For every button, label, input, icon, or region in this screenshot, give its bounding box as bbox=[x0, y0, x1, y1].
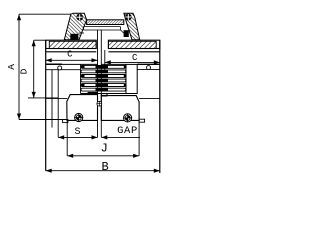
right block step bbox=[101, 94, 107, 96]
svg-text:S: S bbox=[74, 127, 80, 138]
cover right bolt bbox=[125, 14, 131, 20]
svg-text:C: C bbox=[67, 49, 73, 59]
right flange bolt bbox=[124, 114, 132, 122]
chamber bottom bbox=[81, 93, 138, 95]
left block bottom tab bbox=[63, 120, 68, 123]
cover right seal bbox=[124, 30, 129, 37]
extension line from cover top bbox=[19, 13, 71, 15]
right flange block bbox=[101, 96, 139, 121]
dimension line C left bbox=[46, 59, 98, 61]
gap left face line bbox=[97, 30, 99, 137]
left bore line bbox=[46, 69, 81, 71]
extension line A bottom bbox=[19, 119, 68, 121]
extension line D top bbox=[34, 39, 46, 41]
dimension line D bbox=[33, 40, 35, 98]
chamber left wall bbox=[80, 64, 82, 93]
svg-text:J: J bbox=[101, 142, 108, 156]
right lube hole bbox=[147, 66, 151, 70]
left hub face and B extension bbox=[45, 40, 47, 171]
gap small bolt bbox=[97, 101, 102, 106]
svg-text:B: B bbox=[101, 160, 108, 174]
chamber top line right bbox=[101, 63, 126, 65]
svg-text:GAP: GAP bbox=[117, 125, 138, 137]
left lube hole bbox=[58, 66, 62, 70]
cover left bolt bbox=[77, 14, 83, 20]
left keyway line 1 bbox=[51, 70, 53, 128]
left hub rim outline bbox=[46, 40, 96, 48]
gap right face line bbox=[100, 30, 102, 137]
right hub face and B extension bbox=[159, 40, 161, 173]
dimension line J bbox=[67, 155, 139, 157]
dimension line GAP bbox=[101, 136, 140, 138]
right flange inner line bbox=[108, 51, 159, 53]
cover lip left end bbox=[83, 27, 85, 30]
left barrel bottom bbox=[46, 97, 67, 99]
coil spring bbox=[81, 65, 126, 68]
cover right wall hatched bbox=[124, 13, 140, 40]
extension line D bottom bbox=[28, 97, 58, 99]
dimension line S bbox=[58, 136, 97, 138]
dimension line B bbox=[46, 170, 160, 172]
right flange band hatched bbox=[108, 41, 156, 48]
cover lip lines bbox=[84, 26, 121, 28]
svg-text:C: C bbox=[132, 53, 138, 63]
left block step bbox=[88, 92, 98, 94]
svg-text:D: D bbox=[18, 68, 29, 74]
right block bottom tab bbox=[139, 119, 145, 122]
extension line J left bbox=[66, 120, 68, 155]
left flange bolt bbox=[75, 113, 83, 121]
dimension line C right bbox=[105, 61, 160, 63]
left flange inner line bbox=[46, 51, 96, 53]
extension line C right inner bbox=[104, 50, 106, 70]
cover top bar hatched bbox=[87, 20, 124, 25]
right bore line bbox=[137, 68, 160, 70]
right barrel bottom bbox=[139, 98, 160, 100]
cover left seal bbox=[70, 34, 78, 40]
right hub rim outline bbox=[108, 40, 159, 48]
cover left wall hatched bbox=[64, 13, 86, 40]
svg-text:A: A bbox=[6, 64, 17, 70]
chamber top line left bbox=[46, 63, 98, 65]
extension line J right bbox=[138, 120, 140, 155]
right retainer box bbox=[126, 64, 137, 93]
left flange band hatched bbox=[49, 41, 96, 48]
left keyway line 2 / S extension bbox=[57, 70, 59, 137]
cover lip right end bbox=[120, 27, 122, 30]
left flange block bbox=[67, 95, 98, 121]
dimension line A bbox=[18, 14, 20, 119]
